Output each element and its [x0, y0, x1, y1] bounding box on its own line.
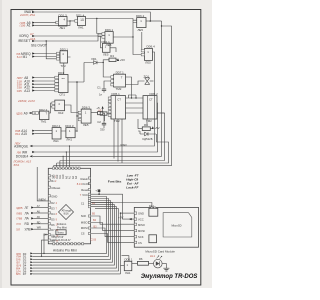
svg-text:СП1: СП1	[59, 92, 65, 96]
svg-text:R6: R6	[139, 257, 143, 261]
svg-text:CReset: CReset	[51, 186, 60, 190]
wire DD2.1 out	[110, 48, 116, 52]
svg-text:С3.В: С3.В	[91, 239, 97, 242]
resistor R3	[138, 123, 153, 130]
svg-text:ЛГ: ЛГ	[25, 206, 29, 210]
pin bottom labels vertical	[52, 236, 72, 242]
pin module MISO	[134, 223, 145, 227]
svg-text:5Л: 5Л	[16, 228, 20, 232]
svg-text:Arduino Pro Mini: Arduino Pro Mini	[53, 248, 77, 252]
pin left red numbers	[56, 202, 59, 243]
node D2	[16, 258, 33, 262]
wire driver in	[121, 256, 129, 266]
pin DD1.4 in	[75, 20, 78, 23]
label spi red nums	[91, 202, 98, 241]
svg-text:GND: GND	[51, 195, 57, 199]
svg-text:D5: D5	[51, 217, 55, 221]
node D4	[16, 264, 33, 268]
wire D1	[33, 199, 109, 257]
wire DD4 out	[68, 63, 91, 131]
wire A11	[35, 83, 55, 85]
svg-text:CS: CS	[138, 241, 142, 245]
wire driver out	[132, 262, 138, 264]
svg-text:D7: D7	[23, 272, 27, 276]
card microSD shape	[163, 213, 192, 237]
svg-text:MISO: MISO	[81, 221, 88, 225]
label Nano boxed	[56, 230, 66, 235]
node D7	[16, 272, 33, 276]
power +5V r3	[152, 126, 160, 130]
svg-text:ЛЕ5: ЛЕ5	[103, 52, 109, 56]
pin right Reset	[81, 188, 90, 192]
pin DD6.3 ins	[78, 111, 81, 114]
svg-text:CS: CS	[81, 232, 85, 236]
crystal ZQ1	[144, 74, 154, 84]
power +5V module	[118, 215, 134, 220]
svg-text:/Д85: /Д85	[16, 206, 23, 210]
svg-text:MOSI: MOSI	[81, 226, 88, 230]
svg-text:SCK: SCK	[138, 235, 144, 239]
gate DD6.1	[105, 28, 114, 47]
svg-text:ЛЕ5: ЛЕ5	[145, 61, 151, 65]
svg-text:CT: CT	[149, 97, 153, 101]
svg-text:R4: R4	[110, 54, 114, 58]
gate B1 DD3.2	[55, 100, 65, 115]
power +5V arduino	[91, 189, 123, 218]
gate DD3.1	[60, 47, 69, 68]
junction	[46, 40, 47, 41]
node D6	[16, 269, 33, 273]
svg-text:D3: D3	[51, 207, 55, 211]
svg-text:MOSI: MOSI	[138, 229, 145, 233]
svg-text:6-И: 6-И	[17, 55, 22, 59]
node /IORQGE	[14, 144, 32, 148]
svg-text:A3IRQGE: A3IRQGE	[14, 144, 28, 148]
junction dd61	[132, 36, 133, 37]
svg-text:ОНД 5П 4Г: ОНД 5П 4Г	[52, 236, 65, 239]
transistor DD5.3 led driver	[124, 257, 133, 274]
wire A15	[35, 133, 52, 135]
wire /M1 to DD3.1	[35, 56, 57, 58]
node A12	[17, 86, 35, 90]
junction waitnet	[150, 20, 152, 22]
pin right fan pins	[88, 195, 90, 207]
svg-text:VCC: VCC	[138, 218, 144, 222]
pin RX	[48, 179, 57, 183]
junction	[161, 25, 162, 26]
node /A5 row	[16, 216, 48, 221]
svg-text:==: ==	[62, 76, 66, 80]
wire D4	[33, 205, 115, 265]
pin DD4 ins	[55, 76, 59, 79]
pin right VCC	[80, 193, 91, 197]
pin module VCC	[134, 218, 143, 222]
wire D6	[33, 209, 119, 271]
svg-text:C1: C1	[81, 202, 85, 206]
svg-text:Reset: Reset	[81, 188, 88, 192]
svg-text:045: 045	[17, 89, 22, 93]
svg-text:DD6.4: DD6.4	[147, 45, 156, 49]
svg-text:8Л6: 8Л6	[16, 272, 21, 276]
svg-text:HL1: HL1	[150, 254, 156, 258]
svg-text:/УХ: /УХ	[16, 222, 21, 226]
node /A7 row	[16, 205, 48, 210]
wire mem	[37, 167, 48, 201]
wire DD5 links	[126, 95, 144, 113]
node /RD row	[16, 221, 48, 226]
svg-text:2x#7F, 25A: 2x#7F, 25A	[19, 13, 35, 17]
wire A10	[35, 80, 55, 82]
wire D0	[33, 197, 107, 254]
node D1	[16, 255, 33, 259]
wire /MREQ to DD3.1	[35, 53, 57, 55]
diamond ATmega logo	[59, 205, 74, 220]
svg-text:/Д95: /Д95	[16, 111, 23, 115]
svg-text:A15: A15	[21, 132, 27, 136]
pin DD1.3 in	[56, 21, 59, 24]
node /WR row	[16, 227, 48, 232]
junction	[69, 20, 70, 21]
svg-text:Lock-FF: Lock-FF	[126, 185, 138, 189]
resistor R2	[98, 108, 105, 121]
svg-text:A1: A1	[27, 24, 31, 28]
ground	[162, 264, 169, 271]
svg-text:Pro Mini: Pro Mini	[57, 225, 67, 229]
node /WR	[17, 150, 35, 154]
pin TX	[48, 175, 57, 179]
node /M1	[17, 55, 35, 59]
op-amp DD2.2 trigger	[39, 108, 49, 123]
node A14	[15, 129, 35, 133]
svg-text:ТМ2: ТМ2	[114, 119, 120, 123]
svg-text:Л11: Л11	[15, 132, 20, 136]
junction dd4out	[76, 81, 78, 83]
svg-text:DOS3E4: DOS3E4	[16, 155, 29, 159]
wire A5 to DD1.3	[35, 22, 56, 24]
node /A6 row	[16, 211, 48, 216]
svg-text:A9: A9	[24, 111, 28, 115]
gate DD2.1	[102, 40, 111, 57]
svg-text:VD1: VD1	[91, 57, 97, 61]
junction d8d9	[43, 253, 44, 254]
wire DD3.1 out down to DD4	[64, 57, 71, 75]
node D5	[16, 267, 33, 271]
svg-text:Nano: Nano	[57, 231, 64, 235]
wire /WAIT net	[35, 12, 150, 21]
pin left labels	[51, 201, 55, 243]
node D0	[16, 252, 33, 256]
svg-text:ЛН1: ЛН1	[53, 139, 59, 143]
svg-text:ЛА3: ЛА3	[58, 111, 64, 115]
svg-text:/106: /106	[20, 24, 26, 28]
svg-text:Font Bits: Font Bits	[108, 180, 122, 184]
wire A1 to DD1.4	[35, 21, 75, 26]
wire DD1.4 out to DD6.2	[86, 19, 142, 55]
node A10	[17, 79, 35, 83]
frame border	[11, 10, 201, 286]
resistor R6	[138, 257, 154, 265]
trigger DD7.1	[114, 71, 126, 92]
svg-text:/985: /985	[16, 211, 22, 215]
pin module SCK	[134, 235, 143, 239]
svg-text:M1: M1	[23, 55, 28, 59]
svg-text:+5V: +5V	[120, 58, 125, 62]
svg-text:D2: D2	[51, 201, 55, 205]
svg-text:Rawin: Rawin	[81, 177, 89, 181]
wire /RESET net	[35, 34, 102, 59]
node A9	[16, 111, 31, 115]
svg-text:1Д: 1Д	[80, 18, 84, 22]
wire D7	[33, 213, 121, 274]
svg-text:D7: D7	[51, 228, 55, 232]
svg-text:WR: WR	[37, 227, 41, 230]
svg-text:ЛЕ5: ЛЕ5	[106, 43, 112, 47]
gate DD6.2	[136, 14, 146, 32]
wire WR bus row2	[35, 103, 158, 152]
svg-text:+5V: +5V	[154, 126, 159, 130]
pin DD3.1 ins	[57, 52, 60, 55]
wire A9	[32, 112, 39, 114]
svg-text:ЛЕ5: ЛЕ5	[83, 123, 89, 127]
wire top pin drops	[54, 146, 70, 167]
svg-text:MicroSD Card Module: MicroSD Card Module	[145, 250, 175, 254]
pin module CS	[134, 241, 142, 245]
svg-text:/IORQ: /IORQ	[19, 34, 29, 38]
wire D5	[33, 207, 117, 268]
svg-text:GND A4 A5 A6 A7: GND A4 A5 A6 A7	[52, 239, 72, 242]
wire DD6.1 out	[113, 36, 133, 38]
pin DD5.1 ins	[108, 97, 111, 99]
svg-text:GND: GND	[138, 212, 144, 216]
pin DD6.1 in pins	[102, 33, 105, 36]
chip small	[149, 235, 157, 243]
node A8	[17, 76, 35, 80]
svg-text:T: T	[121, 76, 123, 80]
pin B1 ins	[52, 102, 55, 105]
pin right D10..D13 spi	[88, 201, 90, 234]
svg-text:ЛН1: ЛН1	[78, 26, 84, 30]
wire module gnd feed	[120, 212, 134, 214]
node D3	[16, 261, 33, 265]
wire DD2.2 to DD2.3	[61, 130, 77, 132]
svg-text:ЛН1: ЛН1	[125, 271, 131, 275]
pin bottom row	[53, 243, 84, 245]
svg-text:ЛЕ5: ЛЕ5	[138, 28, 144, 32]
svg-text:Sbs On/Off: Sbs On/Off	[31, 43, 47, 47]
junction vd1	[103, 62, 104, 63]
svg-text:MISO: MISO	[138, 223, 145, 227]
svg-text:МЫС: МЫС	[121, 143, 128, 147]
pin GND	[48, 195, 57, 199]
wire bus row5	[57, 134, 169, 163]
pin CReset	[48, 186, 60, 190]
pin right RAW	[81, 177, 91, 181]
svg-text:24833, 2хЛ2: 24833, 2хЛ2	[17, 99, 35, 103]
pin right OnOff	[77, 182, 91, 186]
gate DD2.3	[65, 124, 75, 142]
svg-text:MicroSD: MicroSD	[172, 224, 182, 228]
svg-text:SCK: SCK	[81, 214, 87, 218]
counter DD5.1	[111, 92, 126, 123]
node A15	[15, 132, 35, 136]
wire D8 bend	[44, 235, 48, 254]
svg-text:КД522Б: КД522Б	[143, 137, 153, 141]
svg-text:D4: D4	[51, 212, 55, 216]
diode VD1	[91, 57, 100, 64]
regulator DA1	[149, 204, 158, 216]
pin left D2..D9	[48, 201, 50, 241]
gate DD1.3	[59, 13, 68, 30]
svg-text:/98: /98	[17, 150, 22, 154]
node A5	[20, 21, 36, 25]
power +5V mid	[96, 106, 104, 112]
wire /IORQGE bus row1	[33, 52, 155, 146]
wire bus row6	[54, 26, 172, 166]
pin module MOSI	[134, 229, 145, 233]
wire A12	[35, 86, 55, 88]
svg-text:VCC: VCC	[82, 193, 88, 197]
power +5V top	[116, 58, 125, 62]
capacitor C2	[97, 115, 106, 131]
mcu U1 Arduino Pro Mini box	[48, 168, 90, 244]
wire DD6.3 in from DD4	[77, 115, 78, 117]
wire D2	[33, 201, 111, 260]
wire /IORQ to DD2.1	[35, 36, 103, 48]
resistor R4	[109, 54, 116, 61]
wire DOSEN bus row3	[33, 21, 162, 156]
wire DD5.2 right taps	[157, 103, 165, 113]
svg-text:WR: WR	[22, 150, 28, 154]
svg-text:C1: C1	[97, 86, 101, 90]
label spi pins	[81, 202, 88, 236]
pin module GND	[134, 212, 144, 216]
wire A14	[35, 130, 52, 132]
gate DD2.2	[52, 124, 61, 143]
gate DD6.4	[145, 45, 155, 65]
gate DD1.4	[76, 13, 86, 29]
svg-text:ТЛ2: ТЛ2	[61, 64, 67, 68]
capacitor C1	[97, 81, 111, 97]
pin top row	[53, 167, 81, 169]
comparator DD4	[58, 71, 68, 96]
wire B1 out	[65, 105, 79, 113]
junction bus dots	[63, 156, 64, 157]
svg-text:330: 330	[100, 128, 105, 132]
svg-text:ЛЕ1: ЛЕ1	[60, 26, 66, 30]
wire bus row4	[60, 113, 165, 161]
pin 11	[33, 111, 39, 115]
svg-text:CT: CT	[117, 97, 121, 101]
svg-text:+5V: +5V	[95, 189, 100, 193]
svg-text:ЗЛА: ЗЛА	[13, 163, 19, 167]
wire DD6.2 out	[146, 20, 162, 22]
counter DD5.2	[143, 92, 158, 123]
svg-text:1н: 1н	[99, 93, 102, 97]
svg-text:/RESET: /RESET	[18, 39, 30, 43]
junction bus risers	[120, 212, 121, 213]
svg-text:A13: A13	[24, 89, 30, 93]
svg-text:ТМ1: ТМ1	[41, 119, 47, 123]
svg-text:8/16: 8/16	[64, 213, 69, 216]
node A13	[17, 89, 35, 93]
gate DD6.3	[81, 106, 91, 128]
node /IORQ	[19, 32, 35, 38]
node /MREQ	[16, 52, 35, 56]
junction dd63	[76, 115, 77, 116]
wire A8	[35, 77, 55, 79]
svg-text:C2: C2	[97, 120, 101, 124]
module A1 MicroSD card module box	[134, 207, 198, 247]
svg-text:УЛВ: УЛВ	[25, 228, 31, 232]
node A11	[17, 83, 35, 87]
wire DD6.3 out	[91, 112, 98, 114]
wire DD2.2 out	[49, 103, 52, 113]
wire SPI staircase	[91, 203, 152, 243]
wire DD6.4 in vertical	[141, 32, 143, 49]
LED HL1	[150, 254, 162, 268]
node DOSEN	[16, 155, 33, 159]
wire VD1 to R4 node	[99, 60, 111, 77]
node /RESET	[18, 37, 36, 43]
svg-text:ТМ2: ТМ2	[116, 87, 122, 91]
svg-text:Эмулятор TR-DOS: Эмулятор TR-DOS	[141, 274, 198, 280]
svg-text:D6: D6	[51, 223, 55, 227]
wire D9 bend	[42, 240, 49, 256]
svg-text:RD: RD	[25, 222, 30, 226]
wire DD5 bottom drops	[114, 119, 147, 163]
svg-text:Arduino: Arduino	[57, 222, 67, 226]
wire A13	[35, 90, 55, 92]
pin DD7.1 ins	[111, 76, 114, 79]
pin top labels vertical	[53, 174, 78, 179]
resistor R5	[100, 112, 111, 119]
svg-text:RD: RD	[37, 221, 41, 224]
wire D3	[33, 203, 113, 263]
diode VD2	[138, 131, 156, 141]
pin DD6.4 ins	[141, 49, 144, 52]
node /WAIT	[24, 10, 35, 14]
node A1	[20, 24, 36, 28]
svg-text:ЛН1: ЛН1	[66, 138, 72, 142]
junction dd5	[131, 97, 132, 98]
svg-text:OnOff: OnOff	[82, 182, 89, 186]
wire DD7.1 outs	[126, 77, 145, 98]
svg-text:/788: /788	[16, 217, 22, 221]
paper background	[0, 0, 212, 288]
junction dd23	[76, 130, 77, 131]
